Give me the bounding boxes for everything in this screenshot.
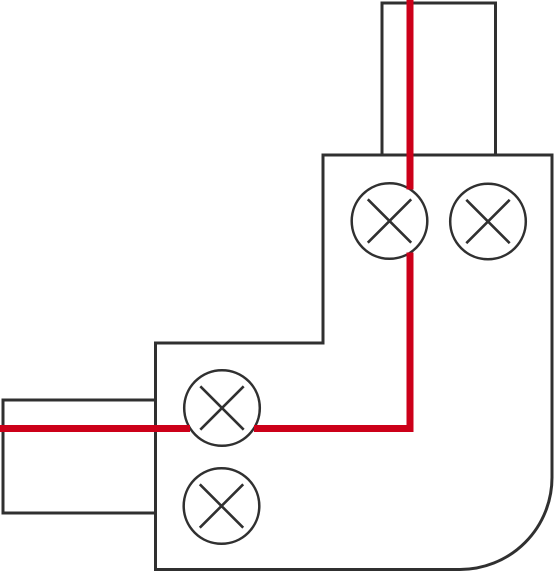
red conductor wire: horizontal segment left of terminal T3	[0, 425, 190, 432]
red conductor wire: vertical-to-horizontal elbow segment	[254, 253, 410, 429]
screw terminal T3 (left-middle)	[184, 370, 260, 446]
screw terminal T2 (top-right)	[450, 184, 526, 260]
top track stub	[382, 3, 496, 155]
connector body (L-shaped housing, rounded bottom-right corner)	[156, 155, 553, 570]
red conductor wire: vertical segment above terminal T1	[407, 0, 414, 190]
screw terminal T1 (top-left)	[352, 183, 428, 259]
left track stub	[3, 400, 156, 513]
screw terminal T4 (left-bottom)	[184, 468, 260, 544]
